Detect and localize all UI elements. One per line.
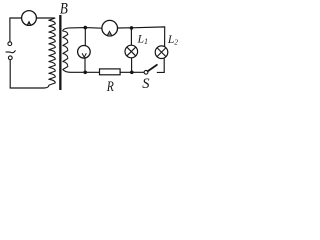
transformer core B [59, 15, 61, 90]
resistor R [100, 69, 121, 75]
wire A1 to transformer primary top [36, 17, 54, 19]
AC source terminal lower [8, 56, 12, 60]
lamp L1 [125, 45, 138, 58]
svg-text:R: R [106, 78, 114, 95]
switch S pivot [144, 70, 148, 74]
node: junction dot bottom rail at L1 [130, 71, 134, 75]
switch S blade [148, 65, 157, 71]
ammeter A1 (primary side) [22, 11, 37, 26]
wire lamp L1 bottom lead [131, 58, 133, 73]
node: junction dot top rail at L1 [130, 26, 134, 30]
voltmeter V [78, 46, 91, 59]
wire voltmeter bottom lead [84, 58, 86, 72]
ammeter A2 (secondary side) [102, 20, 118, 36]
transformer secondary coil [63, 28, 70, 72]
node: junction dot bottom rail at voltmeter [83, 71, 87, 75]
node: junction dot secondary top / voltmeter [84, 26, 88, 30]
svg-text:S: S [142, 76, 150, 92]
lamp L2 [155, 46, 168, 59]
transformer primary coil [49, 18, 56, 85]
wire voltmeter top lead [84, 28, 86, 46]
wire resistor to switch pivot [120, 71, 144, 73]
wire switch fixed contact to bottom-right corner up to lamp L2 [157, 59, 164, 73]
svg-text:B: B [60, 0, 68, 17]
wire bottom-left: from lower AC terminal down and right to primary coil bottom [10, 60, 49, 88]
wire top rail: secondary to ammeter A2 [70, 27, 102, 30]
AC source tilde [6, 50, 16, 52]
wire lamp L1 top lead [130, 28, 132, 45]
wire top-left corner to ammeter A1 [10, 18, 22, 42]
AC source terminal upper [8, 42, 12, 46]
wire top rail A2 to L1 node to top-right corner down to lamp L2 [118, 27, 165, 47]
wire bottom rail: secondary to resistor R [70, 71, 100, 73]
